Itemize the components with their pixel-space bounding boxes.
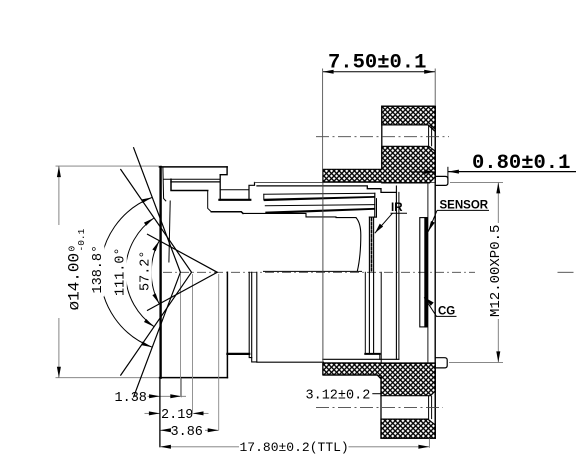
holder top block outline: [382, 106, 435, 183]
svg-text:M12.00XP0.5: M12.00XP0.5: [488, 225, 504, 317]
front inner element edge: [169, 201, 170, 262]
dimension 1.38 line: [148, 395, 187, 397]
dimension dia14 text: [66, 228, 88, 310]
svg-text:2.19: 2.19: [161, 408, 193, 423]
FOV ray 111.0 deg pair: [120, 169, 191, 376]
dimension dia14 line: [58, 166, 60, 225]
holder bottom block upper hatch band with flange strip: [323, 363, 435, 396]
dimension M12 text: [488, 225, 504, 317]
groove bottom thick top section: [219, 199, 250, 201]
groove upper line: [220, 189, 249, 191]
front element face thick: [159, 167, 161, 378]
cap top edge: [159, 166, 227, 168]
svg-text:ø14.00: ø14.00: [66, 253, 84, 311]
dimension 7.50 line: [323, 71, 436, 73]
angle text 57.2: [135, 248, 154, 294]
centerline optical axis: [163, 271, 475, 273]
lens group wedge 1 top: [264, 193, 375, 194]
sensor image plane line: [427, 183, 429, 363]
dimension dia14 ext lines: [56, 165, 160, 167]
groove right wall and steps top: [249, 183, 255, 200]
dimension TTL line: [160, 446, 239, 448]
angle arc 138.8: [100, 197, 152, 347]
svg-text:CG: CG: [438, 306, 455, 318]
rear barrel outer top edge: [257, 186, 396, 193]
rear group edge verticals: [374, 193, 376, 217]
holder top block lower hatch band with flange strip: [323, 146, 435, 183]
holder bottom block lower hatch band: [381, 419, 435, 438]
IR filter pocket top edge: [369, 216, 376, 218]
barrel rear face: [395, 186, 397, 359]
rear barrel lower thread line: [323, 358, 399, 360]
centerline solid segment near aperture: [263, 270, 362, 272]
svg-text:SENSOR: SENSOR: [440, 199, 489, 211]
rear barrel thread crest line top: [255, 182, 434, 184]
holder top block bore lines: [428, 125, 430, 146]
dimension M12 ext lines: [450, 181, 503, 183]
IR filter: [368, 217, 370, 354]
dimension 1.38 ext line: [180, 378, 182, 397]
cap rim silhouette bottom half: [226, 272, 228, 377]
FOV ray 57.2 deg pair: [147, 234, 217, 311]
angle text 111.0: [110, 244, 129, 299]
svg-text:111.0°: 111.0°: [113, 247, 128, 296]
CG glass thick line: [424, 218, 426, 326]
front bezel chamfer line upper: [163, 168, 166, 201]
cap groove silhouette line bottom: [227, 353, 249, 355]
holder top mounting tab: [435, 176, 448, 185]
svg-text:IR: IR: [391, 202, 403, 214]
dimension 2.19 line: [145, 412, 160, 414]
svg-text:138.8°: 138.8°: [91, 245, 106, 294]
barrel silhouette steps bottom half: [248, 272, 250, 354]
svg-text:7.50±0.1: 7.50±0.1: [328, 51, 426, 74]
dimension 3.12 leader: [372, 393, 381, 395]
svg-text:1.38: 1.38: [115, 391, 147, 406]
svg-text:3.86: 3.86: [171, 425, 203, 440]
angle text 138.8: [87, 242, 106, 297]
dimension TTL right ext line: [428, 438, 430, 447]
svg-text:17.80±0.2(TTL): 17.80±0.2(TTL): [240, 440, 349, 455]
svg-text:3.12±0.2: 3.12±0.2: [306, 388, 371, 403]
under-cap retaining lines top: [164, 178, 220, 180]
dimension extension verticals grey: [180, 274, 182, 396]
holder bottom block outline: [381, 363, 435, 438]
cap rim step top: [220, 167, 227, 175]
rear barrel bottom silhouette: [257, 361, 324, 363]
angle arc 111.0: [125, 218, 154, 327]
holder thread wall bottom: [380, 272, 382, 363]
CG cover glass outline: [420, 218, 427, 327]
holder bottom block bore lines: [428, 396, 430, 419]
flange strip bottom outline: [323, 363, 381, 379]
svg-text:-0.1: -0.1: [76, 228, 87, 251]
angle arc 57.2: [151, 241, 159, 304]
holder front face line: [322, 182, 324, 363]
FOV ray 138.8 deg pair: [133, 147, 180, 397]
holder bottom block centerline: [316, 406, 443, 408]
holder top block upper hatch band: [382, 106, 435, 131]
holder top block centerline: [316, 136, 449, 138]
svg-text:57.2°: 57.2°: [138, 250, 153, 291]
dimension M12 line: [497, 182, 499, 223]
dimension 3.86 line: [160, 429, 170, 431]
dimension TTL front ext line: [159, 378, 161, 447]
dimension 7.50 ext lines: [322, 69, 324, 170]
inner silhouette vertical bottom: [364, 272, 366, 354]
dimension 0.80 inner arrow: [411, 171, 435, 173]
dimension 0.80 ext tick: [447, 167, 449, 180]
inner stepped bore lines top: [243, 213, 356, 217]
groove left wall top: [219, 175, 221, 200]
cap bottom edge: [159, 377, 227, 379]
lens group wedge 2 top: [265, 205, 375, 206]
holder bottom mounting tab: [435, 358, 447, 368]
IR seat bar bottom: [365, 353, 380, 355]
dimension 0.80 leader line: [448, 171, 576, 173]
holder right face: [434, 106, 436, 438]
